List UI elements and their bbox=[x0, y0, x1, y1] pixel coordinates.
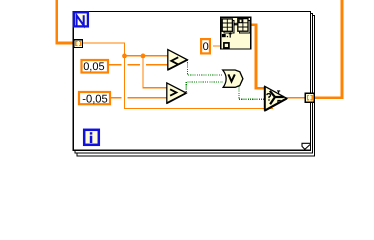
index glyphs under left grid bbox=[222, 34, 226, 37]
for loop: resize dog-ear at bottom-right corner bbox=[302, 143, 310, 150]
wire: boolean from Less-Than output to Or top input bbox=[186, 60, 223, 75]
replaced element cell (black with diamond) bbox=[239, 19, 243, 22]
tunnel: auto-indexing input (left border) bbox=[74, 40, 83, 48]
Replace Array Subset node bbox=[221, 17, 251, 49]
tunnel: auto-indexing output (right border) bbox=[305, 93, 314, 102]
wire: array out of tunnel, right and up off-screen bbox=[314, 96, 343, 98]
left array grid bbox=[222, 19, 232, 31]
wire: branch to Less-Than x input bbox=[125, 55, 168, 57]
for loop: outer shadow frame 1 bbox=[75, 13, 313, 153]
wire: array from Replace Array Subset output down to Select t input bbox=[251, 25, 265, 88]
junction dot A bbox=[122, 54, 127, 59]
left array grid shadow bbox=[224, 21, 234, 33]
wire: constant -0,05 to Greater-Than y input (gap where vertical crosses) bbox=[111, 97, 167, 99]
wire: boolean from Greater-Than output to Or bottom input bbox=[185, 82, 223, 93]
svg-text:-0,05: -0,05 bbox=[82, 93, 108, 105]
wire: element wire from tunnel, down and across to Select f input bbox=[83, 43, 273, 109]
svg-text:0: 0 bbox=[203, 41, 209, 53]
numeric constant -0,05 bbox=[79, 92, 110, 105]
arrow between grids bbox=[234, 23, 237, 26]
right array grid bbox=[238, 19, 248, 32]
for loop: main border bbox=[73, 11, 310, 150]
wire: constant 0,05 to Less-Than y input (gaps where verticals cross) bbox=[109, 64, 168, 66]
Greater Than? node bbox=[167, 83, 187, 103]
wire: array input from frame top-left into loop tunnel bbox=[57, 0, 74, 43]
junction dot B bbox=[141, 54, 146, 59]
Or node bbox=[223, 70, 243, 87]
iteration terminal i bbox=[84, 130, 99, 145]
right array grid shadow bbox=[240, 20, 250, 33]
Less Than? node bbox=[168, 50, 188, 70]
wire: Select output to right tunnel bbox=[287, 97, 306, 99]
wire: constant 0 to Replace Array Subset index input bbox=[213, 45, 221, 47]
wire: array up and off-screen top right bbox=[341, 0, 344, 99]
numeric constant 0 bbox=[201, 39, 210, 53]
wire: branch down to Greater-Than x input bbox=[143, 56, 167, 88]
count terminal N bbox=[74, 12, 88, 26]
svg-text:0,05: 0,05 bbox=[83, 61, 104, 73]
small element square bbox=[224, 43, 229, 48]
wire: boolean from Or output down to Select s input bbox=[239, 84, 265, 99]
numeric constant 0,05 bbox=[82, 60, 109, 73]
Select node bbox=[265, 86, 287, 110]
for loop: outer shadow frame 2 bbox=[77, 15, 315, 156]
